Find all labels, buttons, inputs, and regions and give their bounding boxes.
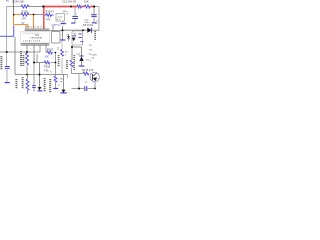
svg-text:270: 270 <box>22 17 27 21</box>
svg-text:R175 470: R175 470 <box>82 68 94 72</box>
svg-text:1N: 1N <box>89 50 92 52</box>
svg-text:IC4: IC4 <box>35 33 40 37</box>
svg-text:R165: R165 <box>22 9 29 13</box>
svg-text:R164 10K: R164 10K <box>13 0 25 4</box>
svg-text:5V: 5V <box>6 0 9 3</box>
svg-text:470: 470 <box>46 17 51 21</box>
svg-text:R167: R167 <box>47 47 54 51</box>
svg-text:D6 1N41: D6 1N41 <box>83 23 94 27</box>
svg-text:10K: 10K <box>45 57 50 59</box>
svg-text:470: 470 <box>44 69 49 73</box>
svg-text:74HC4094N: 74HC4094N <box>30 37 42 39</box>
svg-text:Z: Z <box>57 47 59 51</box>
svg-text:R168: R168 <box>44 65 51 69</box>
svg-text:1u: 1u <box>33 90 35 92</box>
svg-text:8 C: 8 C <box>57 19 61 21</box>
svg-text:10K: 10K <box>84 0 89 4</box>
svg-text:2N41: 2N41 <box>92 55 98 57</box>
svg-text:5V: 5V <box>22 22 25 25</box>
svg-text:R154 5: R154 5 <box>46 9 55 13</box>
svg-text:2 4 D A C 1 4 Q S: 2 4 D A C 1 4 Q S <box>23 40 41 43</box>
svg-text:1N: 1N <box>86 60 89 62</box>
svg-text:24V 1R: 24V 1R <box>68 0 77 4</box>
svg-text:IC5: IC5 <box>52 23 57 27</box>
svg-text:STR D1 CLK OE 4 5 6 7: STR D1 CLK OE 4 5 6 7 <box>25 27 46 29</box>
svg-text:100n: 100n <box>63 11 69 13</box>
